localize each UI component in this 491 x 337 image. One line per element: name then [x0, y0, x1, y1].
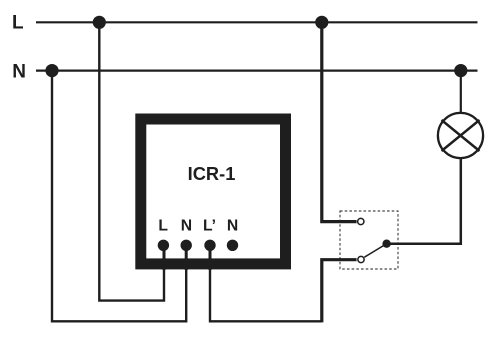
junction dot on L at x=322 [315, 16, 328, 29]
junction dot on N at x=461 [454, 64, 467, 77]
wire from L junction down to switch top contact [322, 22, 357, 221]
svg-text:ICR-1: ICR-1 [188, 163, 236, 184]
svg-text:L: L [158, 218, 168, 235]
svg-text:N: N [227, 218, 238, 235]
wire L line [36, 21, 478, 23]
wire from L junction down, under box, up to terminal L [99, 22, 164, 300]
svg-text:N: N [12, 62, 26, 83]
switch top contact [358, 218, 364, 224]
switch lever [364, 244, 386, 258]
stem terminal L through box border [163, 245, 166, 270]
stem terminal N through box border [185, 245, 188, 270]
terminal pin L' [204, 240, 215, 251]
wire from lamp bottom to switch common [387, 158, 461, 244]
wire from N junction down to lamp [460, 71, 462, 114]
terminal pin N (second, unconnected) [227, 240, 238, 251]
terminal pin N [181, 240, 192, 251]
switch bottom contact [358, 256, 364, 262]
junction dot on N at x=52 [45, 64, 58, 77]
relay module ICR-1 box [141, 119, 286, 264]
svg-text:N: N [181, 218, 192, 235]
svg-text:L: L [12, 13, 24, 34]
wire switch lower feed (up from bottom run to switch pole) [322, 260, 357, 323]
switch S1 dashed boundary [340, 211, 398, 269]
wire from terminal L' down and right toward switch [210, 245, 322, 321]
switch common dot [382, 240, 390, 248]
junction dot on L at x=99 [93, 16, 106, 29]
wire from N junction down, along bottom, up to terminal N [52, 71, 186, 322]
stem terminal L' through box border [209, 245, 212, 270]
lamp E1 [438, 113, 483, 158]
terminal pin L [158, 240, 169, 251]
wire N line [36, 69, 478, 71]
svg-text:L’: L’ [203, 218, 216, 235]
